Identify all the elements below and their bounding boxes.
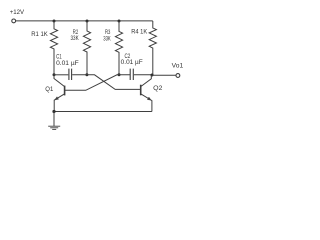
ground [48,112,60,130]
node: Q2 collector / R4 / Vo1 junction [151,74,154,77]
wire: C1 right plate to Q2 base (cross-coupling diagonal) [72,75,141,90]
svg-text:Q1: Q1 [45,86,53,93]
wire: Q1 collector node to C1 left plate [54,74,68,76]
power terminal +12V [12,19,16,23]
svg-text:Vo1: Vo1 [172,62,184,69]
wire: C2 right plate to Q2 collector node [134,74,152,76]
resistor R1 [50,21,57,75]
transistor Q1 [54,75,65,112]
node: emitter / ground junction [52,110,55,113]
node: R2 bottom junction [85,73,88,76]
wire: +12V supply rail [16,20,153,22]
node: Q1 collector / C1 junction [53,73,56,76]
svg-text:33K: 33K [103,36,111,43]
node: R1 top junction [53,20,56,23]
svg-text:33K: 33K [71,35,80,42]
output terminal Vo1 [176,74,180,78]
wire: emitter ground bus [54,111,152,113]
node: R2 top junction [86,20,89,23]
svg-text:0.01 µF: 0.01 µF [56,60,79,67]
capacitor C2 [130,69,133,80]
resistor R4 [149,21,156,75]
svg-text:R4 1K: R4 1K [131,29,148,36]
node: R3 bottom junction [118,73,121,76]
wire: C2 left plate to Q1 base (cross-coupling diagonal) [65,75,130,91]
svg-text:0.01 µF: 0.01 µF [121,59,143,66]
svg-text:+12V: +12V [10,9,25,16]
resistor R2 [83,21,90,75]
wire: Q2 collector node to output terminal Vo1 [152,74,176,76]
node: R3 top junction [118,20,121,23]
resistor R3 [115,21,122,75]
svg-text:R1 1K: R1 1K [31,31,48,38]
transistor Q2 [141,75,152,111]
capacitor C1 [69,69,72,80]
svg-text:Q2: Q2 [153,85,163,92]
